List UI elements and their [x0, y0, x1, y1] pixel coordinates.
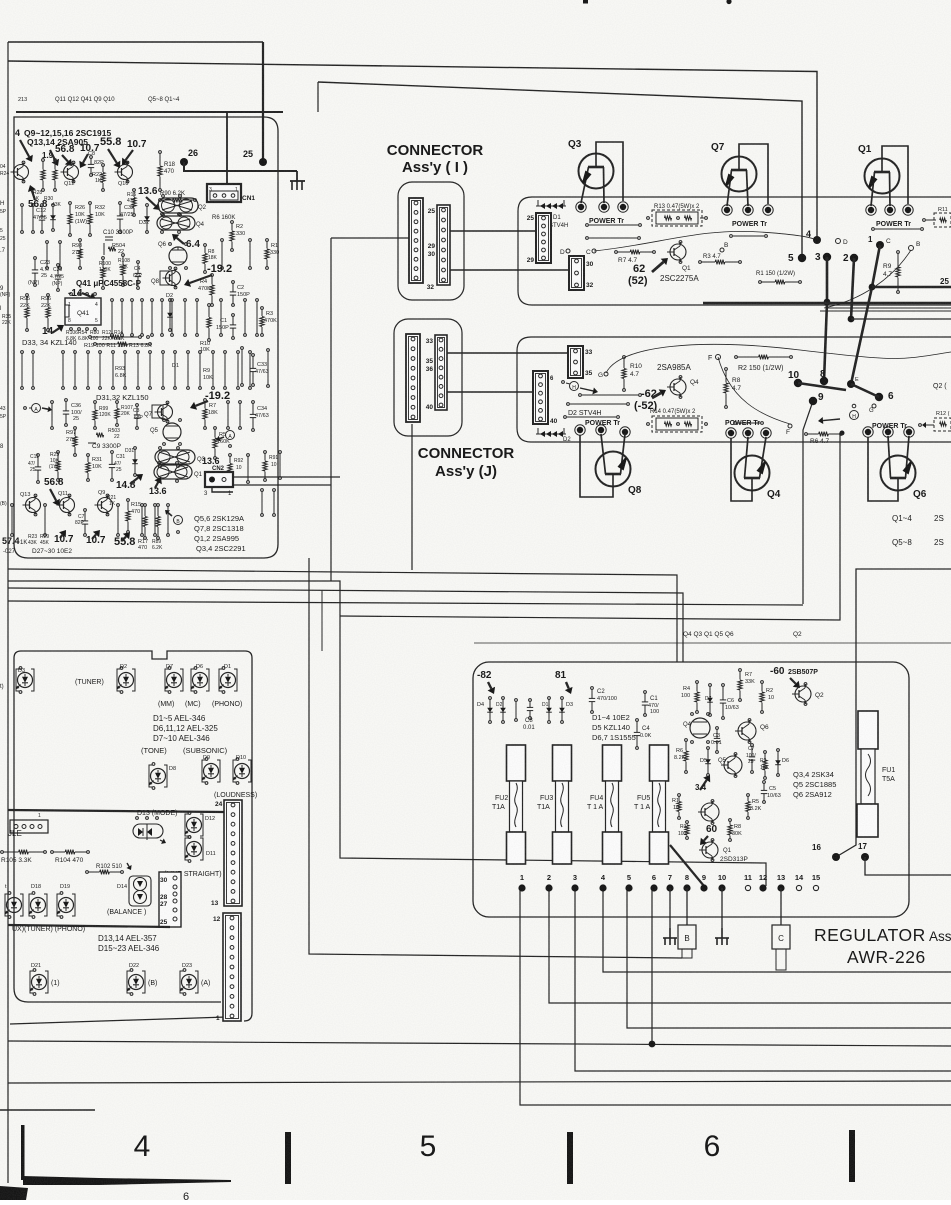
svg-text:(TONE): (TONE) — [141, 746, 167, 755]
svg-text:E: E — [855, 377, 859, 383]
svg-text:R13 0.47(5W)x 2: R13 0.47(5W)x 2 — [654, 204, 700, 210]
wire thin y643 — [474, 642, 951, 644]
svg-text:11: 11 — [744, 873, 752, 882]
svg-text:Q11: Q11 — [58, 491, 68, 497]
svg-text:150P: 150P — [216, 325, 229, 331]
resistor R5b — [214, 427, 217, 430]
capacitor C2b — [232, 281, 235, 284]
svg-text:(B): (B) — [0, 501, 7, 507]
svg-text:10.7: 10.7 — [86, 535, 106, 546]
connector CN1 — [207, 184, 241, 202]
node B small right — [720, 248, 724, 252]
svg-text:D10: D10 — [236, 755, 246, 761]
svg-text:1K: 1K — [33, 196, 40, 202]
stems extra rowA — [21, 204, 24, 207]
svg-text:D8: D8 — [169, 766, 176, 772]
svg-text:C8: C8 — [88, 151, 95, 157]
transistor Q8b — [166, 271, 181, 286]
svg-text:Q1,2 2SA995: Q1,2 2SA995 — [194, 534, 239, 543]
svg-text:R105 3.3K: R105 3.3K — [1, 857, 32, 864]
resistor R9r — [764, 751, 767, 754]
svg-text:D6: D6 — [782, 758, 789, 764]
svg-text:6: 6 — [652, 873, 656, 882]
svg-text:D: D — [843, 239, 848, 246]
wire row above Q8 pads — [564, 416, 567, 419]
svg-text:R3: R3 — [680, 824, 687, 830]
wire top bus A drop to node 25 — [262, 42, 264, 160]
svg-text:Q6: Q6 — [913, 489, 927, 500]
svg-text:D19: D19 — [60, 884, 70, 890]
svg-text:25: 25 — [160, 919, 168, 926]
svg-text:6.4: 6.4 — [186, 239, 200, 250]
svg-text:Q8: Q8 — [628, 485, 642, 496]
wire bus y1027 from pin5 — [627, 888, 951, 1028]
resistor R32 — [89, 202, 92, 205]
svg-text:1K: 1K — [95, 178, 102, 184]
diode string D1 — [537, 200, 539, 206]
svg-text:5: 5 — [0, 228, 3, 234]
svg-text:12: 12 — [759, 873, 767, 882]
stems row3 extra — [227, 401, 230, 404]
svg-text:H: H — [852, 414, 856, 420]
svg-text:Q4: Q4 — [196, 222, 205, 228]
svg-text:2SC2275A: 2SC2275A — [660, 274, 699, 283]
wire bus y1003 from pin2 — [549, 888, 951, 1003]
resistor R108 — [122, 254, 125, 257]
svg-text:R6 160K: R6 160K — [212, 215, 235, 221]
svg-text:10K: 10K — [75, 212, 85, 218]
svg-text:C10 3300P: C10 3300P — [103, 230, 133, 236]
svg-text:Q1: Q1 — [723, 848, 732, 854]
svg-text:Q5~8: Q5~8 — [892, 538, 912, 547]
Q4 pads — [726, 428, 736, 438]
capacitor C8 — [90, 156, 93, 159]
transistor Q5b — [163, 423, 181, 441]
node H circled right — [850, 411, 859, 420]
resistor R8 — [204, 244, 207, 247]
svg-text:R4: R4 — [683, 686, 690, 692]
svg-text:D1: D1 — [172, 363, 179, 369]
resistor R26 — [69, 202, 72, 205]
ruler tick left — [21, 1125, 25, 1180]
svg-text:29: 29 — [428, 243, 436, 250]
wire y336 left — [8, 335, 517, 337]
resistor R15 — [127, 499, 130, 502]
svg-text:t): t) — [0, 684, 4, 690]
svg-text:30: 30 — [586, 261, 594, 268]
svg-text:(1W): (1W) — [75, 219, 87, 225]
svg-text:36: 36 — [426, 366, 434, 373]
diode D30 — [52, 204, 55, 207]
power transistor Q8 — [596, 452, 631, 487]
svg-text:100: 100 — [681, 693, 690, 699]
resistor R31 — [87, 454, 90, 457]
LED D2 tuner — [117, 669, 120, 691]
svg-text:D5: D5 — [700, 758, 707, 764]
svg-text:Q4: Q4 — [683, 722, 692, 728]
stems bottom rows — [11, 504, 14, 507]
svg-text:R10: R10 — [630, 363, 642, 370]
wire CN2 down stub — [212, 487, 233, 492]
svg-text:40: 40 — [426, 404, 434, 411]
dual transistor Q1b — [154, 465, 192, 479]
resistor R10b — [208, 304, 211, 307]
resistor R102 510 — [86, 871, 89, 874]
stems extra rowB — [46, 241, 49, 244]
wire 16 drop right — [836, 569, 951, 857]
power transistor Q3 — [579, 154, 614, 189]
LED D14 dual — [129, 876, 151, 906]
wire thick 3 down to 8 — [824, 257, 827, 381]
diode D32 — [146, 204, 149, 207]
svg-text:D23: D23 — [182, 963, 192, 969]
svg-text:D13 (MODE): D13 (MODE) — [137, 810, 177, 817]
svg-text:22K: 22K — [2, 320, 12, 326]
resistor R17 — [144, 504, 147, 507]
svg-text:D13,14 AEL-357: D13,14 AEL-357 — [98, 934, 157, 943]
svg-text:470K: 470K — [198, 286, 211, 292]
arrow Q3 4 — [700, 780, 707, 790]
LED D18 — [29, 894, 32, 916]
svg-text:25: 25 — [748, 759, 754, 765]
diode D3r — [561, 697, 564, 700]
wire thick 9 pointer — [670, 845, 704, 886]
svg-text:D18: D18 — [31, 884, 41, 890]
capacitor C36 — [65, 399, 68, 402]
svg-text:Q5 2SC1885: Q5 2SC1885 — [793, 780, 836, 789]
transistor Q1r — [702, 842, 718, 858]
svg-text:R102 510: R102 510 — [96, 864, 123, 870]
resistor R8r — [729, 819, 732, 822]
board lower mid components — [21, 351, 24, 354]
svg-text:R31: R31 — [92, 457, 102, 463]
node F circle left — [716, 355, 721, 360]
power transistor Q6 — [881, 456, 916, 491]
connector strip I-left — [409, 198, 423, 283]
svg-text:POWER Tr: POWER Tr — [589, 218, 624, 225]
svg-text:470: 470 — [164, 169, 175, 175]
wire link row — [89, 336, 92, 339]
svg-text:R98: R98 — [72, 243, 82, 249]
svg-text:2: 2 — [843, 253, 849, 264]
svg-text:213: 213 — [18, 97, 27, 103]
wire bus y1020 from lower board connector — [10, 1017, 227, 1024]
svg-text:C2: C2 — [237, 285, 244, 291]
svg-text:33: 33 — [585, 349, 593, 356]
svg-text:POWER Tr: POWER Tr — [872, 423, 907, 430]
svg-text:R6 4.7: R6 4.7 — [810, 438, 830, 445]
svg-text:R1: R1 — [672, 798, 679, 804]
svg-text:6: 6 — [888, 391, 894, 402]
svg-text:REGULATOR: REGULATOR — [814, 925, 926, 945]
svg-text:Q5: Q5 — [150, 428, 159, 434]
resistor R3 4p7 — [699, 261, 702, 264]
svg-text:Q7: Q7 — [144, 412, 153, 418]
svg-text:Q5~8 Q1~4: Q5~8 Q1~4 — [148, 97, 180, 103]
svg-text:5: 5 — [95, 318, 98, 324]
svg-text:H: H — [572, 385, 576, 391]
wire bus y602 — [8, 601, 803, 605]
svg-text:R24: R24 — [0, 171, 9, 177]
svg-text:6.8K: 6.8K — [78, 336, 89, 342]
wire bus y570 — [8, 569, 677, 662]
svg-text:1: 1 — [216, 1015, 220, 1022]
resistor R1 — [266, 239, 269, 242]
svg-text:R93: R93 — [115, 366, 125, 372]
wire bottom left stub — [0, 1109, 95, 1111]
svg-text:22K: 22K — [41, 303, 51, 309]
svg-text:Q5,6 2SK129A: Q5,6 2SK129A — [194, 514, 244, 523]
svg-text:R26: R26 — [75, 205, 85, 211]
svg-text:R91: R91 — [269, 455, 278, 461]
svg-text:(TUNER): (TUNER) — [75, 679, 104, 686]
power transistor Q7 — [722, 157, 757, 192]
transistor Q4r — [690, 718, 710, 738]
svg-text:R95: R95 — [20, 296, 30, 302]
svg-text:56.8: 56.8 — [44, 477, 64, 488]
svg-text:(LOUDNESS): (LOUDNESS) — [214, 792, 257, 799]
svg-text:10K: 10K — [760, 765, 770, 771]
svg-text:C: C — [778, 934, 784, 943]
box B — [678, 925, 696, 949]
resistor R5r — [747, 794, 750, 797]
svg-text:28: 28 — [160, 894, 168, 901]
svg-text:2SB507P: 2SB507P — [788, 669, 818, 676]
svg-text:45K: 45K — [40, 540, 50, 546]
svg-text:R15: R15 — [131, 502, 141, 508]
svg-text:5: 5 — [627, 873, 631, 882]
svg-text:(PHONO): (PHONO) — [212, 701, 242, 708]
svg-text:60: 60 — [706, 824, 718, 835]
dual transistor Q3b — [155, 450, 195, 464]
resistor R16 — [133, 189, 136, 192]
svg-text:20K: 20K — [121, 411, 131, 417]
resistor R104 470 — [51, 851, 54, 854]
connector assy I outline — [398, 182, 464, 300]
svg-text:Q12: Q12 — [64, 181, 74, 187]
svg-text:R3 4.7: R3 4.7 — [703, 254, 721, 260]
resistor R6 4p7 h — [805, 433, 808, 436]
connector strip P4 — [533, 371, 548, 424]
svg-text:D6,7 1S1555: D6,7 1S1555 — [592, 733, 636, 742]
svg-text:R2: R2 — [236, 224, 243, 230]
svg-text:C36: C36 — [71, 403, 81, 409]
svg-text:-19.2: -19.2 — [207, 263, 232, 275]
capacitor C31 — [111, 451, 114, 454]
svg-text:D1: D1 — [224, 664, 231, 670]
svg-text:18K: 18K — [208, 255, 218, 261]
svg-text:1: 1 — [38, 813, 41, 819]
wire J to lower power block row2 — [447, 391, 533, 393]
resistor R92 — [229, 454, 232, 457]
stems right col — [241, 347, 244, 350]
svg-text:T 1 A: T 1 A — [587, 804, 604, 811]
svg-text:R14 0.47(5W)x 2: R14 0.47(5W)x 2 — [650, 409, 696, 415]
LED D10 — [233, 760, 236, 782]
svg-text:.7: .7 — [0, 248, 6, 254]
svg-text:Q3,4 2SK34: Q3,4 2SK34 — [793, 770, 834, 779]
connector assy J outline — [394, 319, 462, 436]
svg-text:D: D — [560, 249, 565, 256]
svg-text:C32: C32 — [124, 205, 134, 211]
fuse FU3 — [553, 745, 572, 781]
corner blob — [0, 1186, 28, 1200]
svg-text:3.4: 3.4 — [695, 783, 707, 792]
wire bus y1042 full width — [8, 1041, 951, 1046]
connector strip 30-25 — [159, 872, 181, 927]
svg-text:27K: 27K — [66, 437, 76, 443]
resistor R99 — [94, 401, 97, 404]
dual transistor Q2 — [158, 198, 198, 213]
svg-text:D3: D3 — [18, 668, 25, 674]
svg-text:(MM): (MM) — [158, 701, 174, 708]
LED D12 — [185, 814, 188, 836]
svg-text:C3: C3 — [713, 733, 720, 739]
ruler tick 4 — [849, 1130, 855, 1182]
LED D6 MC — [191, 669, 194, 691]
svg-text:9: 9 — [818, 392, 824, 403]
svg-text:Q3: Q3 — [568, 139, 582, 150]
svg-text:D2: D2 — [120, 664, 127, 670]
svg-text:R18: R18 — [164, 162, 176, 168]
wire I to power block row1 — [450, 230, 536, 232]
LED D7 MM — [165, 669, 168, 691]
wire thick to pin24 — [8, 810, 224, 812]
svg-text:Q1: Q1 — [194, 472, 203, 478]
svg-text:C9 3300P: C9 3300P — [92, 443, 121, 450]
LED D1 phono — [219, 669, 222, 691]
svg-text:(B): (B) — [148, 980, 157, 987]
svg-text:470: 470 — [138, 545, 147, 551]
svg-text:(NP): (NP) — [0, 292, 11, 298]
stem between — [515, 699, 518, 702]
svg-text:150P: 150P — [237, 292, 250, 298]
resistor R8 4p7 — [725, 368, 728, 371]
svg-text:UX)(TUNER) (PHONO): UX)(TUNER) (PHONO) — [12, 926, 85, 933]
svg-text:FU3: FU3 — [540, 795, 553, 802]
dual transistor Q4p — [157, 216, 195, 230]
capacitor C6r — [722, 684, 725, 687]
svg-text:D6: D6 — [196, 664, 203, 670]
node D2 open — [836, 239, 841, 244]
svg-text:T1A: T1A — [492, 804, 505, 811]
svg-text:25: 25 — [0, 236, 6, 242]
svg-text:43: 43 — [0, 406, 6, 412]
svg-text:l: l — [0, 306, 1, 312]
svg-text:4: 4 — [134, 1130, 151, 1163]
wire bus y590 corner — [8, 588, 683, 662]
box C — [772, 925, 790, 949]
wire link rows top block — [586, 224, 589, 227]
capacitor C33 — [252, 354, 255, 357]
wire thick y287 to edge 25 — [872, 286, 951, 288]
svg-text:30K: 30K — [732, 831, 742, 837]
svg-text:D14: D14 — [117, 884, 127, 890]
svg-text:2S: 2S — [934, 514, 944, 523]
svg-text:C4: C4 — [642, 726, 650, 732]
Q1 pads — [866, 205, 876, 215]
connector strip I-right — [437, 205, 450, 285]
svg-text:24: 24 — [215, 801, 223, 808]
svg-text:(1W): (1W) — [49, 464, 60, 470]
capacitor C32 — [119, 202, 122, 205]
capacitor C7 — [84, 509, 87, 512]
svg-text:D31,32 KZL150: D31,32 KZL150 — [96, 393, 149, 402]
Q8 pads — [575, 425, 585, 435]
svg-text:Q6 2SA912: Q6 2SA912 — [793, 790, 832, 799]
svg-text:-62: -62 — [641, 388, 657, 400]
resistor R107 — [116, 401, 119, 404]
svg-text:AWR-226: AWR-226 — [847, 947, 926, 967]
svg-text:22K: 22K — [20, 303, 30, 309]
wire top bus B — [8, 61, 817, 238]
svg-text:2SD313P: 2SD313P — [720, 856, 748, 863]
svg-text:POWER Tr: POWER Tr — [732, 221, 767, 228]
svg-text:POWER Tr: POWER Tr — [585, 420, 620, 427]
wire thick 2 down — [851, 258, 854, 319]
svg-text:22: 22 — [114, 434, 120, 440]
svg-text:30: 30 — [428, 251, 436, 258]
svg-text:R6: R6 — [676, 748, 683, 754]
connector strip J-right — [435, 335, 447, 410]
svg-text:1K: 1K — [20, 540, 27, 546]
svg-text:30: 30 — [160, 877, 168, 884]
svg-text:1: 1 — [68, 302, 71, 308]
svg-text:D1: D1 — [553, 215, 561, 221]
svg-text:D3: D3 — [566, 702, 573, 708]
signal curve F — [718, 357, 790, 424]
svg-text:Q7,8 2SC1318: Q7,8 2SC1318 — [194, 524, 244, 533]
svg-text:47/25: 47/25 — [120, 212, 134, 218]
svg-text:Q41: Q41 — [77, 310, 90, 317]
svg-text:Q7: Q7 — [711, 142, 725, 153]
svg-text:26: 26 — [188, 148, 198, 158]
svg-text:3: 3 — [815, 252, 821, 263]
svg-text:10K: 10K — [95, 212, 105, 218]
svg-text:330: 330 — [236, 231, 245, 237]
resistor R91 — [264, 451, 267, 454]
svg-text:CN1: CN1 — [242, 195, 255, 202]
stems lower right — [247, 454, 250, 457]
svg-text:C5: C5 — [769, 786, 776, 792]
Q6 pads — [863, 427, 873, 437]
resistor R6r — [685, 739, 688, 742]
svg-text:G: G — [869, 408, 874, 414]
wire I to power block row2 — [450, 269, 569, 271]
svg-text:R8: R8 — [734, 824, 741, 830]
svg-text:Q2 (: Q2 ( — [933, 383, 947, 390]
svg-text:D27~30 10E2: D27~30 10E2 — [32, 548, 72, 555]
svg-text:R12 (: R12 ( — [936, 411, 950, 417]
svg-text:6.8K: 6.8K — [66, 336, 77, 342]
wire top bus A — [8, 41, 263, 43]
capacitor C34 — [252, 401, 255, 404]
svg-text:R11: R11 — [938, 207, 948, 213]
LED D19 — [57, 894, 60, 916]
svg-text:Q8: Q8 — [151, 279, 160, 285]
resistor R3b — [261, 307, 264, 310]
LED D22 — [127, 971, 130, 993]
wire pin8 to B box — [686, 888, 688, 925]
svg-text:Q13: Q13 — [20, 492, 30, 498]
svg-text:(SUBSONIC): (SUBSONIC) — [183, 746, 228, 755]
svg-text:C33: C33 — [257, 362, 267, 368]
wire pin7 ground — [669, 888, 671, 928]
svg-text:D11: D11 — [206, 851, 216, 857]
svg-text:F: F — [786, 429, 790, 436]
svg-text:B: B — [724, 242, 728, 249]
capacitor C5r — [763, 781, 766, 784]
